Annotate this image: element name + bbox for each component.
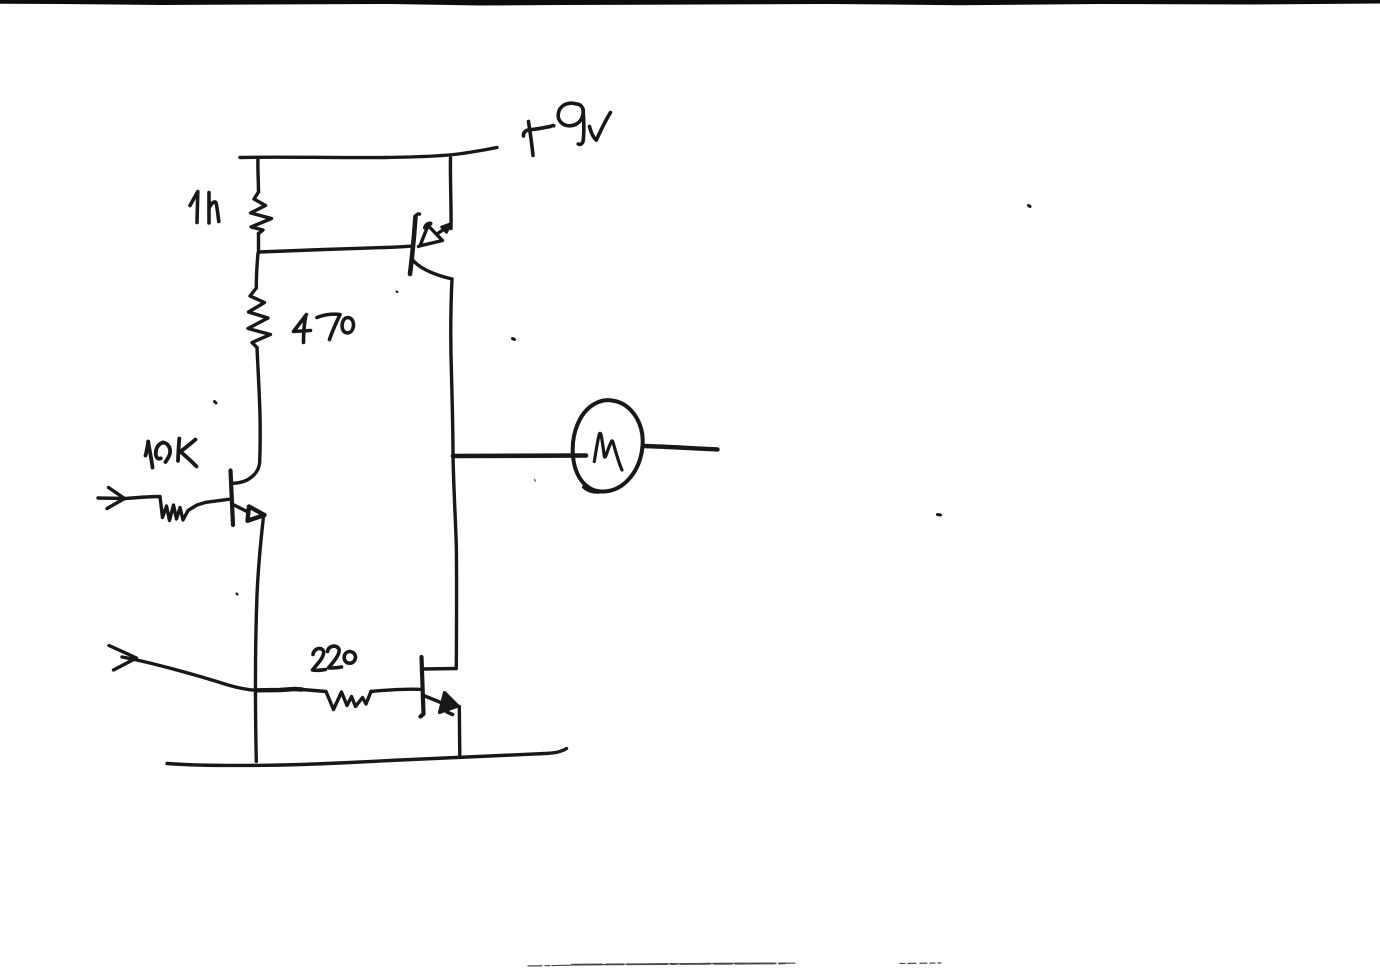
power rail +9V xyxy=(240,148,497,158)
stray dot g xyxy=(534,480,537,482)
transistor Q2 (bottom NPN) bar xyxy=(421,657,424,717)
input arrow 2 xyxy=(109,646,137,671)
transistor Q1 emitter with arrowhead xyxy=(233,505,248,513)
motor M1 circle xyxy=(573,400,643,491)
Q3 collector xyxy=(412,259,453,280)
resistor R3 10k inline xyxy=(125,497,229,521)
wire arrow2 to node xyxy=(122,657,257,690)
wire node to R4 xyxy=(257,689,302,690)
transistor Q2 emitter with solid arrowhead xyxy=(424,696,448,706)
Q3 emitter tip barbs xyxy=(442,224,452,233)
label 220 xyxy=(313,646,356,670)
transistor Q3 (PNP) bar xyxy=(410,217,416,275)
transistor Q1 (input NPN) bar xyxy=(231,471,234,526)
label 470 xyxy=(294,314,354,342)
Q3 emitter open arrowhead xyxy=(420,226,443,246)
stray dot b xyxy=(513,339,515,340)
stray dot a xyxy=(215,402,217,404)
wire rail down to Q3 emitter xyxy=(449,158,453,229)
wire R1 to base node xyxy=(257,234,260,254)
motor wire right xyxy=(644,446,718,450)
label 10K xyxy=(146,439,197,468)
wire rail to R1 xyxy=(256,158,260,192)
wire R2 down to Q1 collector xyxy=(234,348,261,484)
wire R4 to Q2 base xyxy=(371,689,420,691)
resistor R1 1k xyxy=(251,192,272,234)
motor wire left xyxy=(453,453,586,458)
wire Q2 collector up / middle line down from Q3 xyxy=(451,279,457,669)
Q3 emitter shaft xyxy=(419,226,450,247)
stray dot e xyxy=(938,513,941,517)
resistor R4 220 xyxy=(302,690,371,710)
stray dot f xyxy=(237,594,238,595)
label 1k xyxy=(190,192,219,224)
scanner smudge bottom xyxy=(528,963,941,966)
input arrow 1 xyxy=(98,496,125,500)
ground rail xyxy=(167,749,567,766)
node base junction / base wire to Q3 xyxy=(259,246,410,252)
motor letter M xyxy=(594,433,622,470)
resistor R2 470 xyxy=(248,288,271,348)
wire node to R2 xyxy=(256,253,258,288)
stray dot c xyxy=(397,291,398,294)
Q2 collector step xyxy=(424,667,457,671)
label +9V xyxy=(523,103,610,155)
scanner edge bar (top) xyxy=(0,0,1380,6)
stray dot d xyxy=(1029,206,1031,207)
